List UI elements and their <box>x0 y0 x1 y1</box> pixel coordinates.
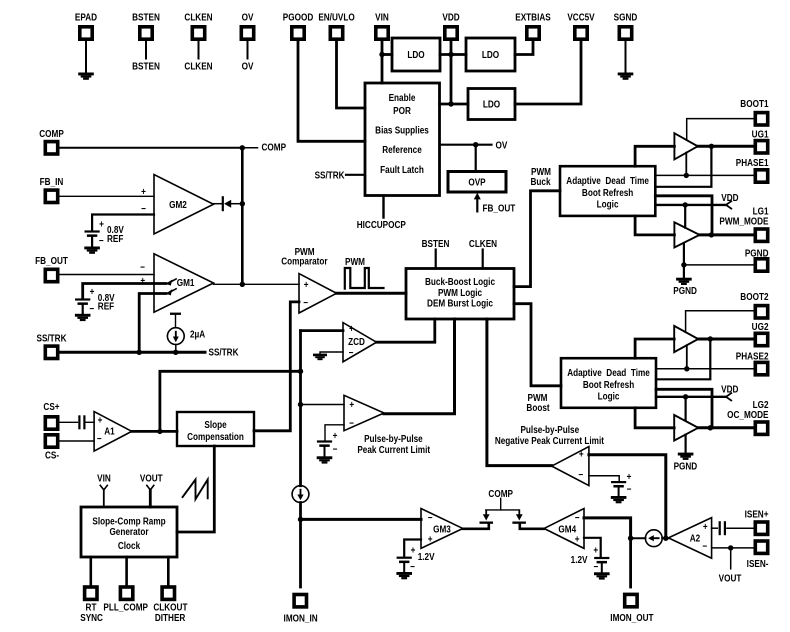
pin CLKEN <box>184 12 212 39</box>
pin PHASE2 <box>736 351 769 375</box>
svg-text:UG2: UG2 <box>752 321 769 332</box>
svg-text:ISEN+: ISEN+ <box>745 509 769 520</box>
junction PHASE1 <box>684 173 689 178</box>
svg-text:PLL_COMP: PLL_COMP <box>103 602 148 613</box>
svg-text:ZCD: ZCD <box>348 336 365 347</box>
svg-text:OVP: OVP <box>468 177 485 188</box>
svg-text:LDO: LDO <box>407 49 424 60</box>
pin IMON_IN <box>284 595 318 624</box>
svg-text:Logic: Logic <box>597 199 619 210</box>
wire cap to A1 <box>86 421 94 423</box>
svg-text:REF: REF <box>98 301 115 312</box>
capacitor ISEN <box>719 521 726 535</box>
op-amp A2 <box>668 518 711 559</box>
junction rail peak <box>298 402 303 407</box>
junction GM2 diode COMP <box>240 201 245 206</box>
pin BSTEN <box>132 12 160 39</box>
node CLKEN <box>184 61 212 72</box>
svg-text:OV: OV <box>496 140 509 151</box>
svg-text:CLKOUT: CLKOUT <box>153 602 187 613</box>
op-amp GM2 <box>141 175 213 235</box>
svg-text:+: + <box>90 286 95 297</box>
block adaptive dead time 2 <box>561 358 656 408</box>
battery 0.8V REF GM1 <box>75 286 115 314</box>
ground ZCD <box>313 354 327 361</box>
svg-text:Pulse-by-Pulse: Pulse-by-Pulse <box>364 433 423 444</box>
pin VDD <box>442 12 460 39</box>
node PWM Boost <box>526 392 549 413</box>
junction VDD-LDO3 <box>448 101 453 106</box>
pin CS+ <box>43 401 59 429</box>
junction A2 out <box>663 536 668 541</box>
wire peak plus <box>301 404 345 406</box>
wire GM4 minus <box>584 518 631 538</box>
svg-text:−: − <box>303 297 308 308</box>
wire dot to source <box>631 537 646 539</box>
pin PLL_COMP <box>103 587 148 613</box>
svg-text:1.2V: 1.2V <box>571 554 589 565</box>
svg-text:COMP: COMP <box>262 142 287 153</box>
wire GM4 out <box>520 524 544 529</box>
wire LG1 out <box>700 233 754 236</box>
block U-POR Enable/POR/Bias/Reference/FaultLatch <box>365 83 440 196</box>
wire LG1 feedback <box>655 196 712 235</box>
svg-text:SGND: SGND <box>614 12 638 23</box>
wire RT stub <box>90 557 93 586</box>
svg-text:VOUT: VOUT <box>140 473 163 484</box>
buffer LG1 driver <box>674 222 699 247</box>
junction LG2 <box>708 425 713 430</box>
svg-text:Enable: Enable <box>389 92 416 103</box>
wire VDD driver1 <box>655 204 726 206</box>
block buck-boost logic <box>406 269 514 320</box>
svg-text:Adaptive Dead Time: Adaptive Dead Time <box>567 367 650 378</box>
ground GM4 ref <box>594 572 610 579</box>
op-amp GM4 <box>544 509 584 549</box>
svg-text:PGOOD: PGOOD <box>283 12 314 23</box>
wire UG2 feedback <box>656 339 710 379</box>
svg-text:Generator: Generator <box>109 526 149 537</box>
wire IMON_OUT <box>629 538 632 587</box>
svg-text:VDD: VDD <box>721 192 739 203</box>
wire VIN <box>381 39 384 83</box>
pin FB_IN <box>40 176 64 202</box>
svg-text:−: − <box>410 561 415 572</box>
svg-text:COMP: COMP <box>39 128 64 139</box>
wire UG1 drive in <box>635 146 674 166</box>
pin PGND1 <box>745 248 769 272</box>
waveform PWM <box>345 268 384 289</box>
wire UG1 feedback <box>655 146 711 187</box>
svg-text:VOUT: VOUT <box>719 573 742 584</box>
node VOUT ramp <box>140 473 163 490</box>
svg-text:GM1: GM1 <box>177 277 195 288</box>
wire CS- to A1 <box>58 440 94 442</box>
svg-text:EPAD: EPAD <box>75 12 97 23</box>
wire ZCD minus <box>320 352 343 354</box>
svg-text:Comparator: Comparator <box>281 256 328 267</box>
label negative peak <box>495 424 604 446</box>
node HICCUPOCP <box>357 219 406 230</box>
junction A1 out <box>157 429 162 434</box>
svg-text:SS/TRK: SS/TRK <box>36 333 66 344</box>
svg-text:Boost: Boost <box>526 402 549 413</box>
wire CLKOUT stub <box>167 557 170 586</box>
pin VIN <box>375 12 389 39</box>
pin IMON_OUT <box>610 594 654 623</box>
ground PGND1 <box>676 278 692 285</box>
wire LG2 drive in <box>635 408 674 428</box>
wire ramp out <box>177 446 214 532</box>
wire COMP rail <box>241 148 244 284</box>
wire to neg peak <box>487 319 552 466</box>
wire neg peak plus <box>589 455 666 538</box>
svg-text:+: + <box>627 471 632 482</box>
svg-text:Clock: Clock <box>118 540 141 551</box>
wire BSTEN stub <box>145 39 147 59</box>
svg-text:PHASE2: PHASE2 <box>736 351 769 362</box>
pin EN/UVLO <box>318 12 354 39</box>
node PWM Buck <box>530 166 551 187</box>
label PWM Comparator <box>281 246 328 267</box>
svg-text:−: − <box>349 347 354 358</box>
node VOUT <box>719 573 742 584</box>
wire VDD to LG2 driver <box>684 397 686 421</box>
svg-text:+: + <box>575 534 580 545</box>
svg-text:Adaptive Dead Time: Adaptive Dead Time <box>566 175 649 186</box>
wire GM1 input arrows <box>166 279 177 296</box>
wire FB_OUT arrow <box>474 193 481 213</box>
ground PGND2 <box>678 453 694 460</box>
svg-text:+: + <box>141 186 146 197</box>
wire VCC5V <box>515 39 581 104</box>
wire UG1 out <box>698 145 754 148</box>
svg-text:+: + <box>98 415 103 426</box>
pin CS- <box>45 435 59 461</box>
block ramp generator <box>81 507 177 557</box>
ground neg peak ref <box>611 496 627 503</box>
svg-text:CS+: CS+ <box>43 401 59 412</box>
node PGND1 label <box>673 285 697 296</box>
wire A2 minus <box>712 547 754 549</box>
wire GM3 ref gnd <box>403 563 405 572</box>
wire FB_OUT to GM1 <box>58 274 154 276</box>
svg-text:CLKEN: CLKEN <box>184 61 212 72</box>
wire COMP <box>58 147 243 149</box>
node BSTEN <box>132 61 160 72</box>
svg-text:Slope: Slope <box>204 419 226 430</box>
svg-text:Negative Peak Current Limit: Negative Peak Current Limit <box>495 435 604 446</box>
wire LG2 out <box>698 426 754 429</box>
pin RT <box>80 587 103 623</box>
wire PLL_COMP stub <box>125 557 128 586</box>
node VDD driver1 <box>721 192 739 209</box>
wire OV stub <box>247 39 249 59</box>
wire PWM buck route <box>514 191 560 287</box>
wire EXTBIAS <box>515 39 533 55</box>
svg-text:BSTEN: BSTEN <box>132 12 160 23</box>
wire ZCD plus <box>301 329 344 332</box>
svg-text:LDO: LDO <box>483 99 500 110</box>
wire GM2 minus to ref <box>92 215 154 231</box>
wire GM2 output <box>214 203 223 205</box>
battery 1.2V GM3 <box>397 545 436 572</box>
pin EPAD <box>75 12 97 39</box>
svg-text:SS/TRK: SS/TRK <box>209 347 239 358</box>
pin BOOT2 <box>740 291 768 318</box>
svg-text:PGND: PGND <box>674 461 698 472</box>
block slope compensation <box>177 412 254 446</box>
svg-text:BOOT2: BOOT2 <box>740 291 768 302</box>
wire sense rail lower <box>299 503 302 588</box>
svg-text:LDO: LDO <box>482 49 499 60</box>
svg-text:CLKEN: CLKEN <box>184 12 212 23</box>
regulator LDO3 <box>468 89 515 120</box>
junction VDD driver1 <box>683 202 688 207</box>
wire BOOT2 <box>686 311 754 333</box>
wire LG1 driver gnd <box>683 243 685 265</box>
svg-text:IMON_IN: IMON_IN <box>284 613 318 624</box>
svg-text:Buck-Boost Logic: Buck-Boost Logic <box>425 276 495 287</box>
battery 1.2V GM4 <box>571 545 610 572</box>
regulator LDO2 <box>466 38 515 71</box>
svg-text:+: + <box>349 399 354 410</box>
svg-text:VIN: VIN <box>375 12 389 23</box>
svg-text:Buck: Buck <box>530 176 551 187</box>
node VDD driver2 <box>721 384 739 401</box>
node OV <box>242 61 255 72</box>
junction VOUT <box>728 545 733 550</box>
pin FB_OUT <box>35 255 68 281</box>
wire VDD to LG1 driver <box>684 205 686 228</box>
junction PHASE2 <box>684 366 689 371</box>
junction VDD driver2 <box>683 394 688 399</box>
svg-text:REF: REF <box>107 233 124 244</box>
wire EN/UVLO <box>337 39 366 108</box>
svg-text:VDD: VDD <box>442 12 460 23</box>
svg-text:−: − <box>99 235 104 246</box>
wire SS/TRK <box>58 351 205 354</box>
svg-text:+: + <box>349 323 354 334</box>
svg-text:A1: A1 <box>104 426 114 437</box>
wire peak out <box>384 319 455 414</box>
pin PHASE1 <box>736 157 769 182</box>
svg-text:−: − <box>89 303 94 314</box>
wire LG2 driver gnd <box>684 435 686 453</box>
buffer UG1 driver <box>674 133 697 159</box>
buffer UG2 driver <box>674 326 698 352</box>
svg-text:BOOT1: BOOT1 <box>740 98 768 109</box>
wire slope to PWM minus <box>254 302 299 431</box>
svg-text:Fault Latch: Fault Latch <box>380 164 424 175</box>
node BSTEN input <box>422 238 450 268</box>
svg-text:+: + <box>579 449 584 460</box>
svg-text:EN/UVLO: EN/UVLO <box>318 12 354 23</box>
wire GM3 minus <box>301 518 422 521</box>
op-amp GM1 <box>140 254 213 312</box>
wire OV to OVP <box>475 145 477 172</box>
regulator LDO1 <box>392 38 440 71</box>
junction rail GM3 <box>298 517 303 522</box>
wire A1 riser <box>160 371 301 431</box>
pin COMP <box>39 128 64 154</box>
node SS/TRK enable input <box>315 170 365 181</box>
ground GM2 ref <box>84 247 100 254</box>
node CLKEN input <box>469 238 497 268</box>
svg-text:CS-: CS- <box>45 450 59 461</box>
wire UG2 drive in <box>635 339 674 358</box>
svg-text:+: + <box>99 219 104 230</box>
wire A1 out <box>132 430 177 433</box>
svg-text:−: − <box>349 418 354 429</box>
svg-text:FB_OUT: FB_OUT <box>483 203 516 214</box>
wire GM3 out <box>463 524 489 529</box>
junction COMP <box>240 145 245 150</box>
wire peak minus <box>325 425 344 441</box>
svg-text:BSTEN: BSTEN <box>422 238 450 249</box>
svg-text:OV: OV <box>242 61 255 72</box>
svg-text:DEM Burst Logic: DEM Burst Logic <box>427 298 493 309</box>
label PWM <box>345 256 365 267</box>
svg-text:VIN: VIN <box>97 473 111 484</box>
wire EnableBox to LDO3 <box>440 103 469 106</box>
wire PGND1 gnd <box>683 265 685 278</box>
svg-text:COMP: COMP <box>488 488 513 499</box>
wire PHASE2 <box>656 368 754 370</box>
pin VCC5V <box>567 12 595 39</box>
label Pulse-by-Pulse Peak <box>357 433 430 455</box>
svg-text:VDD: VDD <box>721 384 739 395</box>
svg-text:Logic: Logic <box>598 391 620 402</box>
svg-text:BSTEN: BSTEN <box>132 61 160 72</box>
svg-text:GM3: GM3 <box>433 524 451 535</box>
pin LG1 <box>719 206 768 242</box>
svg-text:Reference: Reference <box>382 144 422 155</box>
wire UG2 out <box>698 338 754 341</box>
waveform sawtooth <box>182 480 208 500</box>
pin ISEN- <box>747 541 769 569</box>
wire source to A2 <box>662 537 668 539</box>
wire VOUT stub <box>730 548 732 569</box>
battery 0.8V REF GM2 <box>85 219 125 246</box>
wire EPAD to ground <box>85 39 87 73</box>
wire sense rail upper <box>299 331 302 486</box>
diode GM2 output <box>222 196 243 211</box>
svg-text:Bias Supplies: Bias Supplies <box>375 125 429 136</box>
svg-text:+: + <box>593 545 598 556</box>
wire VOUT ramp <box>149 490 152 507</box>
wire LG2 feedback <box>656 389 712 428</box>
wire PWM comp out <box>337 292 407 295</box>
wire GM1 ss input <box>139 294 166 353</box>
wire SGND <box>625 39 627 73</box>
svg-text:+: + <box>304 279 309 290</box>
junction UG1 <box>709 144 714 149</box>
wire GM1 output <box>214 283 300 285</box>
svg-text:GM2: GM2 <box>169 199 187 210</box>
wire A2 plus <box>712 527 718 529</box>
current source IMON_OUT <box>645 530 662 547</box>
diode GM4 comp <box>512 510 526 524</box>
svg-text:−: − <box>428 512 433 523</box>
svg-text:OV: OV <box>242 12 255 23</box>
pin SS/TRK <box>36 333 66 359</box>
wire cap to ISEN+ <box>727 527 754 529</box>
svg-text:Pulse-by-Pulse: Pulse-by-Pulse <box>520 424 579 435</box>
svg-text:OC_MODE: OC_MODE <box>727 409 768 420</box>
wire GM4 ref gnd <box>601 563 603 572</box>
svg-text:ISEN-: ISEN- <box>747 558 769 569</box>
node PGND2 label <box>674 461 698 472</box>
svg-text:UG1: UG1 <box>752 129 769 140</box>
svg-text:Boot Refresh: Boot Refresh <box>583 379 635 390</box>
wire GM1 ref to ground <box>82 304 84 314</box>
op-amp GM3 <box>421 509 463 549</box>
svg-text:POR: POR <box>393 105 411 116</box>
junction 2uA ss <box>173 350 178 355</box>
svg-text:PGND: PGND <box>745 248 769 259</box>
svg-text:IMON_OUT: IMON_OUT <box>610 612 654 623</box>
svg-text:RT: RT <box>86 602 97 613</box>
battery neg peak ref <box>611 471 631 495</box>
wire PHASE1 <box>655 174 754 176</box>
comparator PWM <box>299 274 337 313</box>
junction IMON_OUT <box>628 536 633 541</box>
svg-text:SS/TRK: SS/TRK <box>315 170 345 181</box>
svg-text:PGND: PGND <box>673 285 697 296</box>
svg-text:PHASE1: PHASE1 <box>736 157 769 168</box>
node OV label <box>496 140 509 151</box>
svg-text:+: + <box>411 545 416 556</box>
wire OV out <box>440 144 492 146</box>
junction rail A1 <box>298 369 303 374</box>
svg-text:+: + <box>333 430 338 441</box>
comparator peak current limit <box>344 395 384 430</box>
current source 2uA <box>167 313 205 345</box>
pin LG2 <box>727 399 768 434</box>
svg-text:PWM Logic: PWM Logic <box>438 287 482 298</box>
junction OV <box>473 142 478 147</box>
svg-text:+: + <box>703 521 708 532</box>
svg-text:−: − <box>140 262 145 273</box>
svg-text:HICCUPOCP: HICCUPOCP <box>357 219 406 230</box>
svg-text:Compensation: Compensation <box>187 431 244 442</box>
wire 2uA to ss <box>175 345 177 353</box>
svg-text:−: − <box>702 541 707 552</box>
svg-text:EXTBIAS: EXTBIAS <box>515 12 550 23</box>
op-amp A1 <box>94 412 132 452</box>
junction GM1 COMP <box>240 282 245 287</box>
wire CS+ to cap <box>58 421 78 423</box>
svg-text:SYNC: SYNC <box>80 612 103 623</box>
battery peak ref <box>317 430 337 454</box>
svg-text:2µA: 2µA <box>190 329 206 340</box>
wire VDD <box>450 39 453 104</box>
buffer LG2 driver <box>674 415 698 441</box>
svg-text:−: − <box>97 433 102 444</box>
junction VIN-LDO <box>379 52 392 57</box>
junction VDD-LDO1 <box>448 52 453 57</box>
node COMP label <box>242 142 286 153</box>
wire VIN ramp <box>103 490 105 507</box>
svg-text:−: − <box>627 484 632 495</box>
junction GM1 ss <box>137 350 142 355</box>
pin CLKOUT <box>153 587 187 623</box>
wire CLKEN stub <box>198 39 200 59</box>
svg-text:A2: A2 <box>690 533 700 544</box>
svg-text:Slope-Comp Ramp: Slope-Comp Ramp <box>92 516 166 527</box>
svg-text:−: − <box>594 561 599 572</box>
